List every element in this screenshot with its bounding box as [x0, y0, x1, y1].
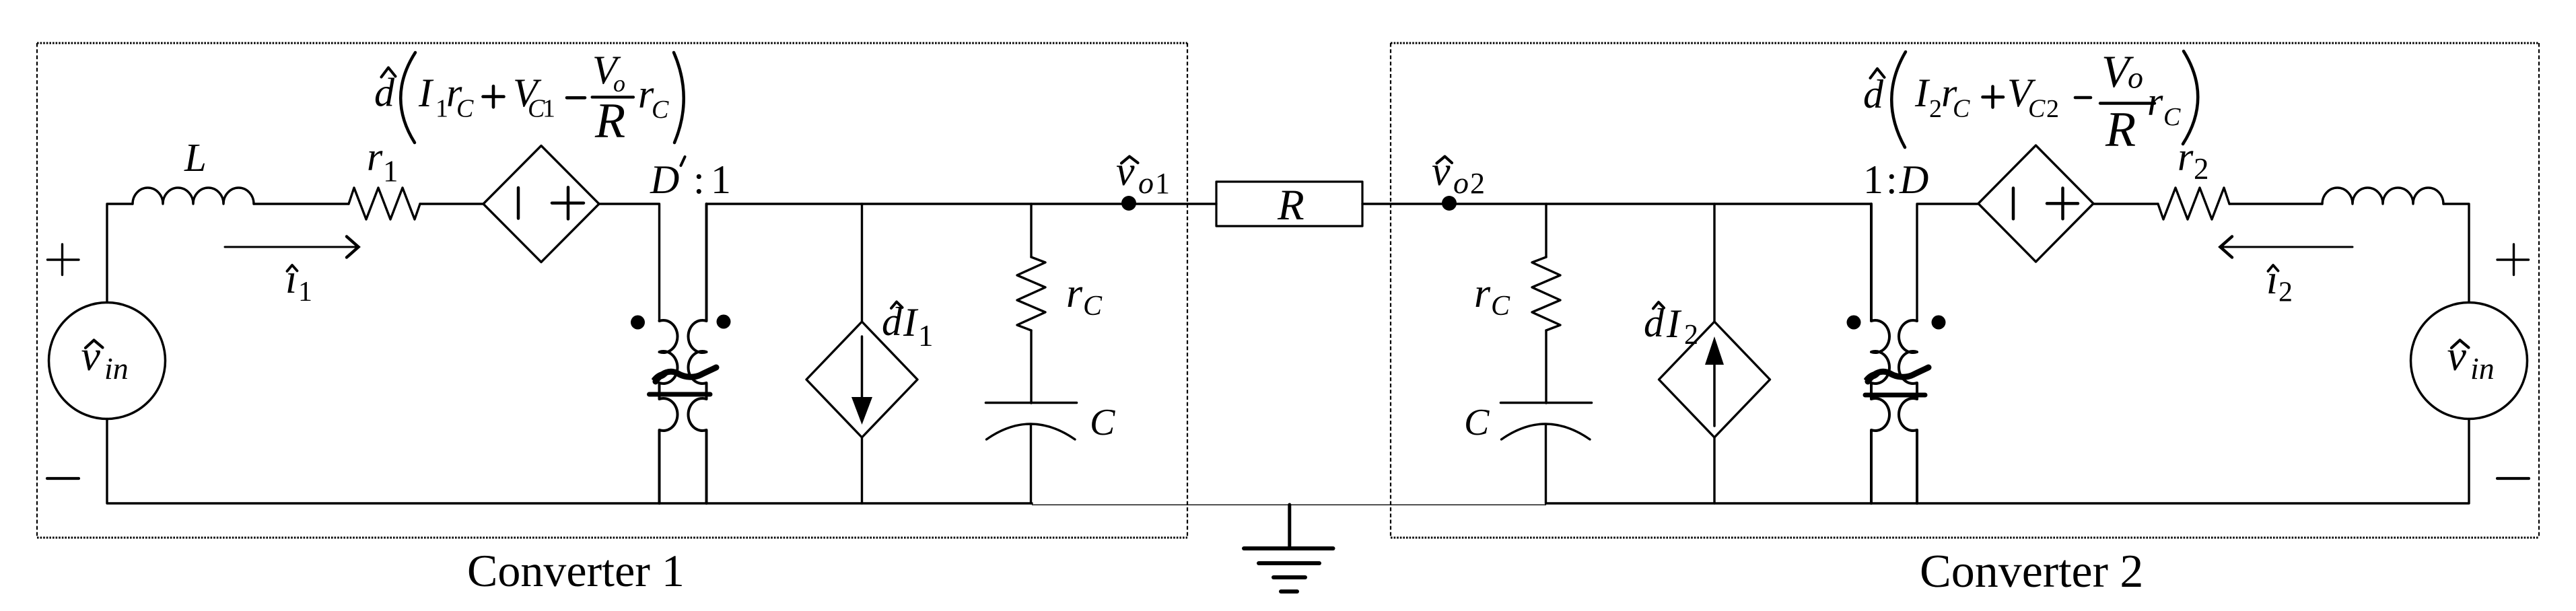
- svg-text:d: d: [1863, 72, 1884, 116]
- svg-text:C: C: [1491, 291, 1510, 322]
- svg-text:2: 2: [1929, 95, 1942, 123]
- svg-text::: :: [1886, 157, 1898, 202]
- svg-text:D: D: [1899, 157, 1928, 202]
- svg-text:2: 2: [2046, 95, 2059, 123]
- svg-text:L: L: [184, 135, 207, 180]
- svg-text:R: R: [1277, 181, 1304, 229]
- svg-text:C: C: [652, 96, 669, 124]
- svg-text:r: r: [367, 135, 383, 179]
- svg-text:C: C: [2028, 95, 2046, 123]
- svg-text::: :: [693, 157, 705, 202]
- svg-text:R: R: [594, 94, 625, 149]
- svg-text:D: D: [650, 157, 679, 202]
- svg-text:1: 1: [711, 157, 731, 202]
- svg-text:o: o: [613, 70, 625, 97]
- svg-text:2: 2: [2194, 152, 2209, 186]
- svg-text:1: 1: [1155, 167, 1170, 200]
- svg-text:o: o: [1453, 166, 1469, 200]
- svg-text:C: C: [2163, 103, 2181, 131]
- svg-text:2: 2: [1684, 320, 1698, 351]
- svg-text:I: I: [418, 71, 434, 115]
- svg-text:C: C: [456, 95, 474, 123]
- svg-text:v: v: [81, 332, 101, 380]
- svg-text:Converter 2: Converter 2: [1920, 546, 2143, 598]
- svg-text:d: d: [374, 71, 395, 115]
- svg-text:I: I: [1914, 71, 1930, 115]
- svg-text:r: r: [2147, 79, 2163, 124]
- svg-text:in: in: [2470, 351, 2495, 386]
- svg-text:R: R: [2105, 102, 2136, 157]
- svg-text:o: o: [2128, 61, 2143, 95]
- svg-text:in: in: [104, 351, 129, 386]
- svg-text:r: r: [1474, 271, 1491, 316]
- svg-text:C: C: [1953, 95, 1970, 123]
- svg-text:ı: ı: [285, 256, 297, 302]
- svg-text:2: 2: [1470, 167, 1485, 200]
- svg-text:C: C: [1464, 402, 1490, 443]
- svg-text:Converter 1: Converter 1: [467, 545, 685, 596]
- svg-text:v: v: [2447, 332, 2467, 380]
- svg-text:1: 1: [383, 155, 398, 188]
- svg-text:I: I: [1666, 301, 1682, 346]
- svg-text:r: r: [1066, 271, 1083, 316]
- svg-text:2: 2: [2278, 277, 2293, 308]
- svg-text:v: v: [1432, 149, 1451, 194]
- svg-text:o: o: [1138, 166, 1154, 200]
- svg-text:v: v: [1116, 149, 1135, 194]
- svg-text:C: C: [1083, 291, 1103, 322]
- svg-text:1: 1: [298, 277, 312, 308]
- svg-text:1: 1: [543, 95, 555, 123]
- svg-text:I: I: [903, 300, 919, 345]
- svg-text:1: 1: [918, 319, 934, 353]
- svg-text:C: C: [1090, 402, 1115, 443]
- svg-text:1: 1: [1863, 157, 1883, 202]
- svg-text:ı: ı: [2266, 257, 2278, 303]
